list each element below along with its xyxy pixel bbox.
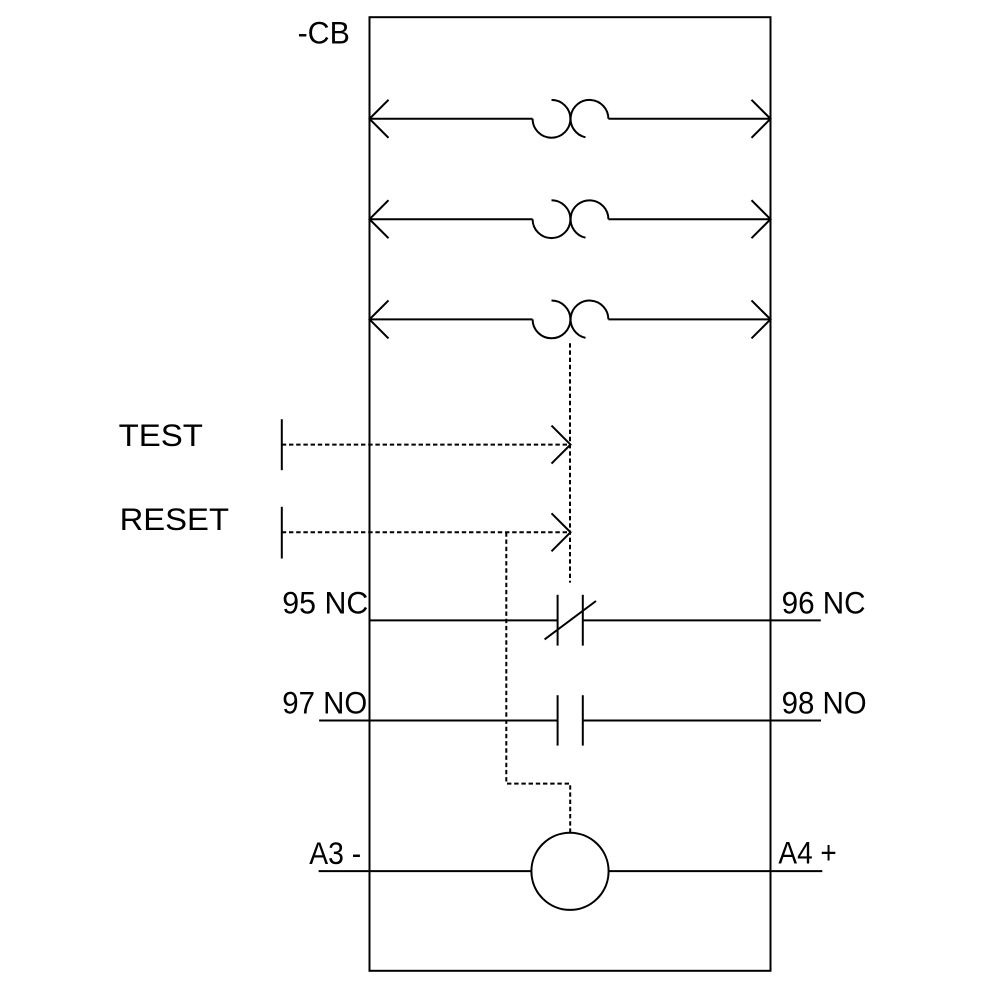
coil wire right A4: [609, 870, 823, 872]
NC contact slash: [545, 601, 596, 639]
pole L3 right arrowhead: [752, 300, 771, 338]
TEST button tick: [281, 419, 283, 470]
RESET actuation dashed wire: [282, 531, 568, 533]
pole L3 wire left: [370, 318, 533, 320]
pole L1 wire right: [608, 118, 770, 120]
RESET linkage dashed branch down to coil: [506, 532, 570, 833]
NO contact left bar: [557, 695, 559, 745]
pole L1 left arrowhead: [370, 100, 389, 138]
pole L1 right arrowhead: [752, 100, 771, 138]
svg-text:97 NO: 97 NO: [282, 685, 367, 721]
svg-text:98 NO: 98 NO: [782, 685, 867, 721]
pole L1 current transformer right arc: [571, 100, 609, 137]
pole L2 current transformer right arc: [571, 200, 609, 237]
RESET arrowhead: [552, 513, 571, 551]
svg-text:TEST: TEST: [119, 417, 203, 453]
NC contact right bar: [582, 595, 584, 646]
NC contact left bar: [557, 595, 559, 646]
pole L2 right arrowhead: [752, 200, 771, 238]
svg-text:-CB: -CB: [298, 15, 350, 51]
pole L2 current transformer left arc: [533, 200, 571, 238]
pole L1 current transformer left arc: [533, 100, 571, 138]
svg-text:A3 -: A3 -: [309, 835, 361, 871]
pole L2 left arrowhead: [370, 200, 389, 238]
svg-text:95 NC: 95 NC: [282, 585, 368, 621]
NO contact 97-98 wire left: [319, 720, 557, 722]
pole L3 current transformer right arc: [571, 301, 609, 338]
pole L2 wire left: [370, 218, 533, 220]
trip linkage dashed vertical from L3 sensor to contact actuator: [569, 343, 571, 582]
TEST actuation dashed wire: [282, 444, 568, 446]
pole L3 wire right: [608, 318, 770, 320]
NC contact 95-96 wire left: [370, 619, 558, 621]
coil circle: [531, 833, 608, 910]
TEST arrowhead: [552, 426, 571, 464]
NC contact 95-96 wire right: [583, 619, 821, 621]
coil wire left A3: [319, 870, 532, 872]
svg-text:96 NC: 96 NC: [782, 585, 866, 621]
svg-text:RESET: RESET: [120, 501, 229, 537]
pole L3 left arrowhead: [370, 300, 389, 338]
enclosure outline of overload relay -CB: [370, 17, 771, 971]
svg-text:A4 +: A4 +: [778, 835, 836, 871]
pole L1 wire left: [370, 118, 533, 120]
NO contact 97-98 wire right: [583, 720, 821, 722]
RESET button tick: [281, 507, 283, 559]
pole L2 wire right: [608, 218, 770, 220]
pole L3 current transformer left arc: [533, 301, 571, 339]
NO contact right bar: [582, 695, 584, 745]
